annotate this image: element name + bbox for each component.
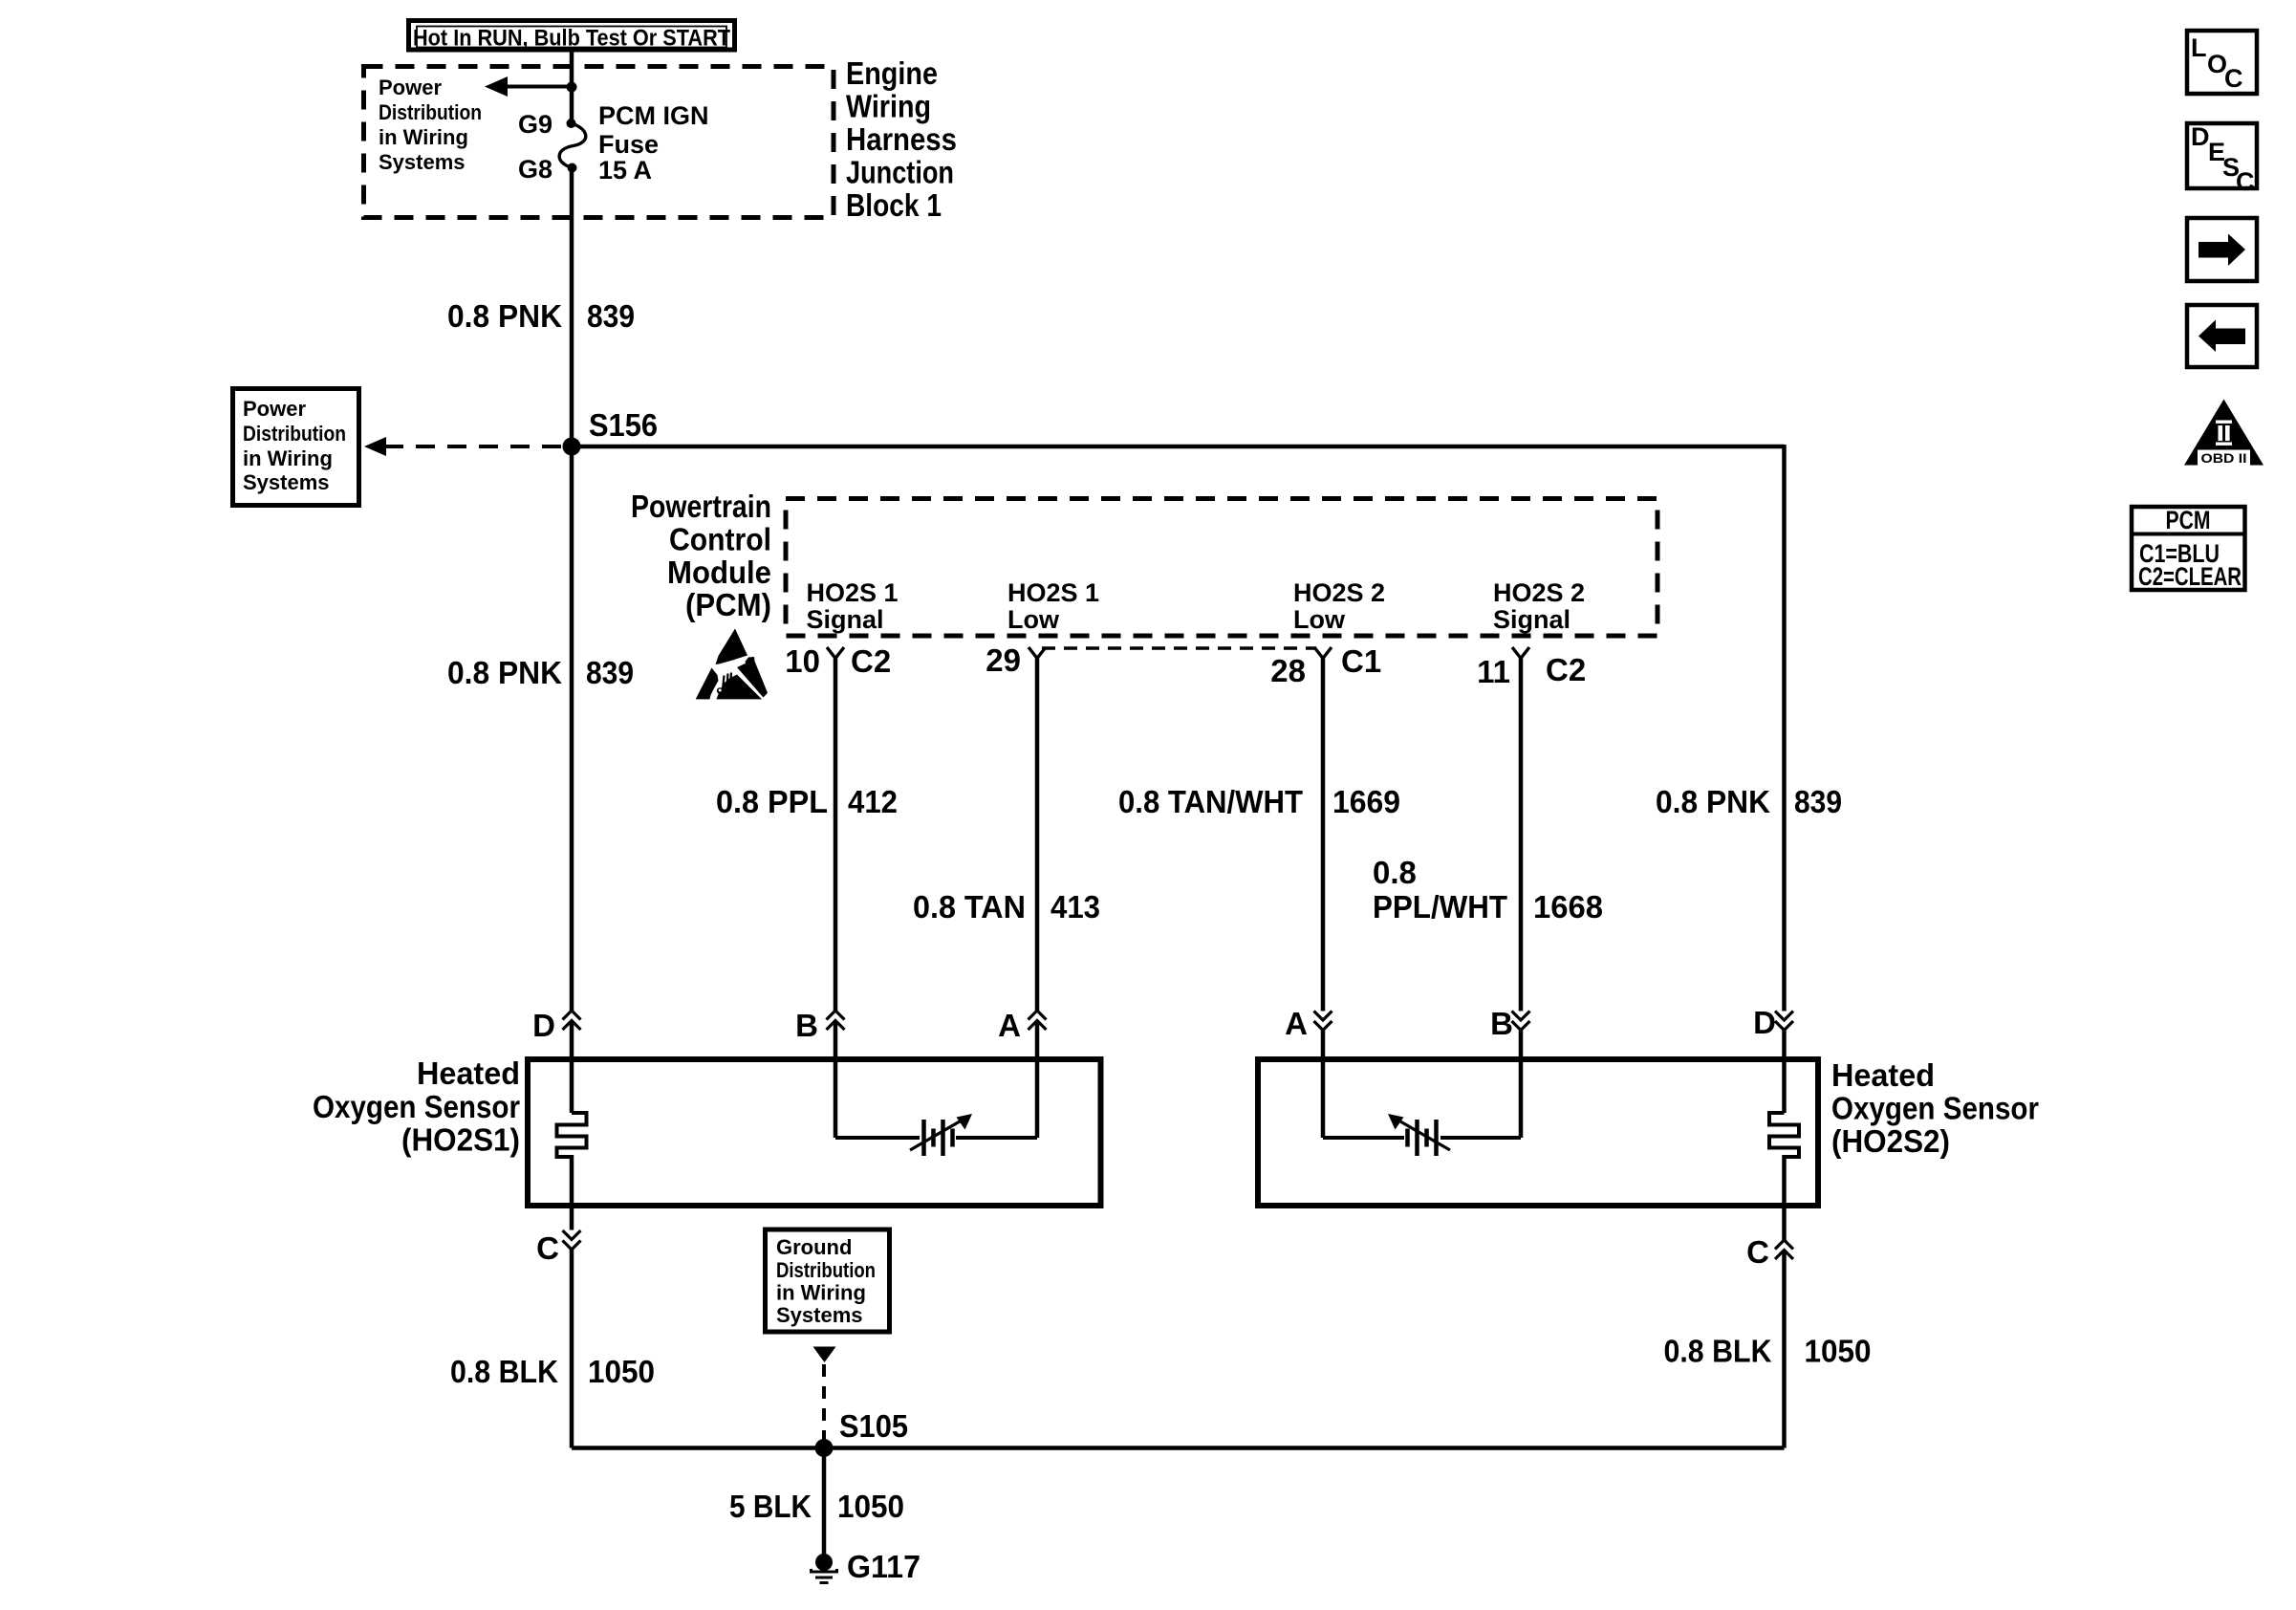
connector B (HO2S2) — [1490, 1006, 1529, 1138]
connector face dashed line C1 (pins 29-28) — [1042, 646, 1316, 650]
svg-text:Harness: Harness — [846, 121, 957, 157]
connector D (HO2S1 top) — [532, 1008, 580, 1113]
label Heated Oxygen Sensor (HO2S2) — [1831, 1057, 2039, 1159]
svg-text:Engine: Engine — [846, 55, 938, 91]
svg-text:C2=CLEAR: C2=CLEAR — [2138, 562, 2242, 591]
icon DESC box — [2187, 122, 2257, 196]
svg-text:C2: C2 — [1546, 652, 1586, 687]
svg-text:HO2S 2: HO2S 2 — [1493, 578, 1585, 607]
svg-text:Heated: Heated — [1831, 1057, 1935, 1093]
svg-text:1050: 1050 — [588, 1354, 655, 1389]
svg-text:Ground: Ground — [776, 1235, 852, 1259]
icon OBD II triangle — [2184, 400, 2264, 467]
label Engine Wiring Harness Junction Block 1 — [846, 55, 957, 223]
wire PNK from Hot feed to fuse — [570, 50, 574, 123]
svg-text:G9: G9 — [518, 110, 552, 139]
module label Powertrain Control Module (PCM) — [631, 489, 771, 622]
svg-text:A: A — [1285, 1006, 1308, 1041]
svg-text:Signal: Signal — [1493, 605, 1570, 634]
svg-text:S156: S156 — [589, 407, 658, 443]
svg-text:C: C — [536, 1230, 559, 1266]
svg-text:G8: G8 — [518, 155, 552, 184]
module box PCM (dashed) — [786, 499, 1657, 637]
power feed box: Hot In RUN, Bulb Test Or START — [409, 21, 735, 52]
svg-text:Fuse: Fuse — [598, 130, 659, 159]
svg-text:Distribution: Distribution — [243, 422, 346, 446]
connector A (HO2S1) — [998, 1008, 1046, 1138]
value label 0.8 TAN/WHT 1669 — [1118, 784, 1400, 819]
svg-text:0.8: 0.8 — [1373, 855, 1417, 890]
branch arrow to Ground Distribution — [813, 1347, 836, 1442]
svg-text:Systems: Systems — [379, 150, 466, 174]
svg-text:in Wiring: in Wiring — [243, 446, 333, 470]
connector B (HO2S1) — [795, 1008, 844, 1138]
svg-text:Oxygen Sensor: Oxygen Sensor — [1831, 1091, 2039, 1126]
svg-text:(HO2S1): (HO2S1) — [401, 1122, 520, 1158]
svg-text:Distribution: Distribution — [776, 1258, 876, 1282]
wire branch arrow to Power Distribution — [485, 76, 577, 97]
svg-text:C1: C1 — [1341, 643, 1381, 679]
pin label HO2S 2 Signal — [1493, 578, 1585, 634]
svg-text:413: 413 — [1051, 889, 1100, 925]
svg-text:Wiring: Wiring — [846, 89, 931, 124]
label Heated Oxygen Sensor (HO2S1) — [313, 1055, 520, 1158]
junction block: Engine Wiring Harness Junction Block 1 (dashed) — [364, 67, 834, 218]
svg-text:S105: S105 — [839, 1408, 908, 1444]
svg-text:G117: G117 — [847, 1549, 921, 1584]
svg-text:11: 11 — [1477, 654, 1510, 689]
svg-text:0.8 BLK: 0.8 BLK — [450, 1354, 558, 1389]
node S156 — [563, 407, 659, 456]
wire S156 to right main PNK — [572, 445, 1785, 449]
value label 0.8 BLK 1050 (left) — [450, 1354, 655, 1389]
svg-text:Power: Power — [379, 76, 442, 99]
wire 5 BLK 1050 — [822, 1448, 827, 1557]
svg-text:B: B — [795, 1008, 818, 1043]
svg-text:10: 10 — [785, 643, 820, 679]
value label 5 BLK 1050 — [729, 1489, 904, 1524]
sensor cell element HO2S2 (variable) — [1323, 1114, 1521, 1156]
svg-text:Powertrain: Powertrain — [631, 489, 771, 524]
svg-text:D: D — [2191, 122, 2210, 151]
svg-text:C2: C2 — [851, 643, 891, 679]
svg-text:in Wiring: in Wiring — [776, 1281, 866, 1305]
ESD static-sensitive symbol — [696, 629, 768, 700]
heater element HO2S1 — [557, 1113, 587, 1206]
icon back arrow box — [2187, 305, 2257, 367]
svg-text:Hot In RUN, Bulb Test Or START: Hot In RUN, Bulb Test Or START — [413, 26, 730, 52]
svg-text:839: 839 — [586, 655, 634, 690]
svg-text:Low: Low — [1293, 605, 1346, 634]
svg-text:0.8 PNK: 0.8 PNK — [447, 298, 562, 334]
svg-text:Signal: Signal — [807, 605, 884, 634]
node S105 — [815, 1408, 909, 1457]
pin 10 C2 (HO2S 1 Signal) — [785, 643, 891, 1011]
dashed branch wire to Power Distribution with arrow — [364, 437, 566, 456]
svg-text:0.8 TAN/WHT: 0.8 TAN/WHT — [1118, 784, 1303, 819]
wire 0.8 PNK 839 right vertical — [1782, 445, 1787, 1012]
svg-text:Low: Low — [1007, 605, 1060, 634]
svg-text:29: 29 — [986, 642, 1021, 678]
svg-text:0.8 PNK: 0.8 PNK — [447, 655, 562, 690]
svg-text:Junction: Junction — [846, 155, 954, 190]
svg-text:Distribution: Distribution — [379, 100, 482, 124]
pin label HO2S 1 Low — [1007, 578, 1099, 634]
svg-text:Heated: Heated — [417, 1055, 520, 1091]
svg-text:C: C — [2236, 167, 2255, 196]
svg-text:C: C — [1746, 1234, 1769, 1270]
heater element HO2S2 — [1769, 1113, 1799, 1206]
pin label HO2S 1 Signal — [807, 578, 899, 634]
svg-text:5 BLK: 5 BLK — [729, 1489, 812, 1524]
pin G8 — [518, 155, 552, 184]
pin G9 — [518, 110, 552, 139]
svg-text:Systems: Systems — [243, 470, 330, 494]
svg-text:Control: Control — [669, 522, 771, 557]
label Power Distribution in Wiring Systems (inside junction block) — [379, 76, 482, 174]
svg-text:D: D — [532, 1008, 555, 1043]
svg-text:in Wiring: in Wiring — [379, 125, 468, 149]
value label 0.8 PPL/WHT 1668 — [1373, 855, 1603, 925]
svg-text:412: 412 — [848, 784, 898, 819]
value label 0.8 PNK 839 (upper) — [447, 298, 635, 334]
svg-text:HO2S 1: HO2S 1 — [1007, 578, 1099, 607]
svg-text:Block 1: Block 1 — [846, 187, 942, 223]
sensor cell element HO2S1 (variable) — [835, 1114, 1037, 1156]
component box Heated Oxygen Sensor HO2S1 — [528, 1059, 1101, 1206]
value label PCM IGN Fuse 15 A — [598, 101, 709, 185]
svg-text:0.8 PNK: 0.8 PNK — [1656, 784, 1770, 819]
icon LOC box — [2187, 31, 2257, 94]
ground G117 — [812, 1549, 921, 1584]
icon forward arrow box — [2187, 218, 2257, 281]
svg-text:C: C — [2224, 64, 2243, 93]
svg-text:1050: 1050 — [837, 1489, 904, 1524]
svg-text:0.8 BLK: 0.8 BLK — [1664, 1334, 1772, 1369]
svg-text:Oxygen Sensor: Oxygen Sensor — [313, 1089, 520, 1124]
svg-text:PPL/WHT: PPL/WHT — [1373, 889, 1507, 925]
value label 0.8 BLK 1050 (right) — [1664, 1334, 1872, 1369]
svg-text:HO2S 1: HO2S 1 — [807, 578, 899, 607]
pin 29 (HO2S 1 Low) — [986, 642, 1046, 1011]
box Power Distribution in Wiring Systems — [233, 389, 359, 506]
pin label HO2S 2 Low — [1293, 578, 1385, 634]
connector A (HO2S2) — [1285, 1006, 1332, 1138]
svg-text:PCM IGN: PCM IGN — [598, 101, 709, 130]
value label 0.8 PNK 839 (right) — [1656, 784, 1842, 819]
svg-text:1050: 1050 — [1805, 1334, 1872, 1369]
value label 0.8 TAN 413 — [913, 889, 1100, 925]
wire ground bus BLK — [572, 1446, 1785, 1450]
value label 0.8 PNK 839 (mid) — [447, 655, 634, 690]
connector D (HO2S2 top) — [1753, 1005, 1793, 1113]
wire 0.8 PNK 839 vertical (fuse to HO2S1) — [570, 168, 574, 1012]
svg-text:Power: Power — [243, 397, 306, 421]
fuse PCM IGN 15 A (between G9 and G8) — [559, 119, 586, 173]
svg-text:L: L — [2191, 33, 2207, 62]
svg-text:28: 28 — [1270, 653, 1306, 688]
svg-text:PCM: PCM — [2166, 506, 2211, 534]
svg-text:(HO2S2): (HO2S2) — [1831, 1123, 1950, 1159]
box Ground Distribution in Wiring Systems — [766, 1229, 890, 1332]
svg-text:Systems: Systems — [776, 1303, 863, 1327]
value label 0.8 PPL 412 — [716, 784, 898, 819]
connector C (HO2S2 bottom) — [1746, 1206, 1793, 1448]
svg-text:839: 839 — [1794, 784, 1842, 819]
svg-text:0.8 TAN: 0.8 TAN — [913, 889, 1026, 925]
svg-text:Module: Module — [667, 555, 771, 590]
svg-text:OBD II: OBD II — [2201, 450, 2247, 466]
svg-text:B: B — [1490, 1006, 1513, 1041]
pin 11 C2 (HO2S 2 Signal) — [1477, 647, 1586, 1012]
connector C (HO2S1 bottom) — [536, 1206, 580, 1448]
svg-text:HO2S 2: HO2S 2 — [1293, 578, 1385, 607]
svg-text:0.8 PPL: 0.8 PPL — [716, 784, 828, 819]
component box Heated Oxygen Sensor HO2S2 — [1258, 1059, 1818, 1206]
svg-text:A: A — [998, 1008, 1021, 1043]
svg-text:(PCM): (PCM) — [685, 587, 771, 622]
legend table PCM connectors — [2130, 506, 2245, 591]
svg-text:1669: 1669 — [1332, 784, 1400, 819]
svg-text:15 A: 15 A — [598, 156, 652, 185]
svg-text:1668: 1668 — [1533, 889, 1603, 925]
svg-text:D: D — [1753, 1005, 1776, 1040]
svg-text:839: 839 — [587, 298, 635, 334]
pin 28 C1 (HO2S 2 Low) — [1270, 643, 1381, 1012]
